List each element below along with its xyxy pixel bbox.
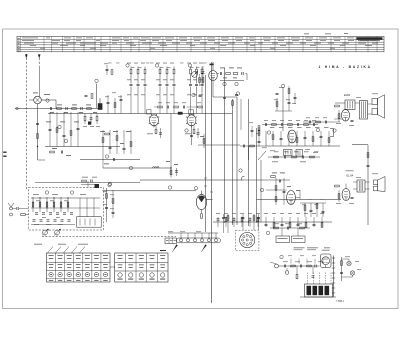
wire bus vertical 3 [236,97,238,225]
wire bus vertical 4 [248,99,250,226]
wire osc right [217,73,219,75]
tap tick [332,277,335,279]
label smudges output 1 [356,96,361,99]
resistor R65 [367,153,369,158]
resistor R58 [258,126,260,131]
resistor R64 [316,204,318,209]
resistor R1 [57,108,62,110]
jack hook symbol [241,176,244,180]
wire I verticals [275,178,277,205]
switch position indicator 2-3 [139,273,143,277]
antenna symbol [8,203,14,207]
capacitor C2 [65,107,67,110]
terminal strip [177,238,221,243]
switch position indicator 2-2 [128,273,132,277]
row L stubs [217,217,219,227]
capacitor C60 [283,190,286,192]
switch label 2-4 [149,278,154,281]
designator node 5 [188,64,191,67]
output transformer T1 [360,101,368,120]
capacitor C63 [310,209,313,211]
designator node 27 [108,182,111,185]
socket pin [241,239,243,241]
detector extra row [262,124,318,126]
capacitor C91 [90,180,92,183]
variable capacitor CV2 [55,230,60,235]
capacitor C81 [233,218,236,220]
capacitor C84 [281,223,284,225]
coil L5 bumps [153,166,160,168]
wire X links [342,258,350,260]
tuning coil L12 [46,197,48,212]
resistor R54 [274,156,279,158]
resistor R35 [102,138,104,143]
tap tick [332,292,335,294]
datum arrow [25,55,27,59]
tube V6 AF amp [287,191,296,205]
label V3 [147,133,153,136]
padder capacitor CP1 [33,219,36,221]
wire G vertical [170,114,172,178]
revision marks above table [304,33,309,36]
resistor R98 [227,216,229,221]
transformer winding 1 [307,286,312,295]
loudspeaker LS1 [372,99,378,105]
wire drop [137,92,139,114]
capacitor C53 [283,156,285,159]
designator node 4 [155,64,158,67]
resistor R100 [274,227,279,229]
tuning coil L10 [32,197,34,212]
switch label 1 [49,279,53,282]
capacitor C48 [288,101,291,103]
capacitor C115 [340,271,343,273]
switch contact symbol b1 [49,263,54,266]
capacitor C30 [49,128,52,130]
capacitor C80 [217,218,220,220]
switch label 5 [85,279,89,282]
capacitor C90 [16,207,18,210]
capacitor C49 [276,92,279,94]
capacitor C40 [175,170,178,172]
label smudges osc [220,67,225,70]
wire bus vertical AGC [205,75,207,232]
wire strip header [168,232,218,234]
capacitor C35 [109,146,112,148]
wire bus vertical B+ [211,62,213,303]
wire X vertical [341,257,343,281]
resistor R53 [328,138,330,143]
resistor R59 [232,101,234,106]
terminal 1 [179,239,182,242]
designator node 1 [46,99,49,102]
capacitor C110 [283,265,285,268]
resistor R49 [288,89,290,94]
label rectifier [322,249,330,252]
switch position indicator 2 [58,272,62,276]
resistor R115 [341,261,343,266]
terminal 4 [200,239,203,242]
tap tick [332,267,335,269]
wire T verticals [223,214,225,233]
plate load parts [158,106,163,108]
bracket symbol [330,129,334,137]
wire drop [173,92,175,114]
designator node 18 [45,191,48,194]
resistor R11 [137,69,139,74]
svg-text:EL 84: EL 84 [347,173,354,177]
capacitor C1 [49,107,51,110]
label smudges strip [168,231,173,234]
label smudges I [272,172,277,175]
node dots row L [224,221,225,222]
label smudges IF rows [127,62,131,65]
resistor R5 [37,134,39,139]
capacitor C86 [313,223,316,225]
screen decoupling block [178,112,183,115]
resistor R97 [112,199,114,204]
switch position indicator 2-1 [118,273,122,277]
tube V4 IF amp 2 [187,115,196,126]
terminal 6 [214,239,217,242]
socket center [246,239,248,241]
capacitor C93 [112,211,115,213]
switch contact symbol d4 [150,264,155,267]
wire osc [96,84,98,101]
switch contact symbol c2 [128,254,133,257]
resistor R22 [199,78,201,83]
designator node 7 [235,82,238,85]
wire osc tail [212,81,214,98]
capacitor C82 [249,218,252,220]
switch contact symbol c3 [139,254,144,257]
switch position indicator 2-4 [150,273,154,277]
headphone jack J1 [347,261,351,265]
wire I links [266,189,287,191]
switch contact symbol c1 [117,254,122,257]
designator node 25 [129,166,132,169]
switch label 2-3 [139,278,144,281]
designator node 3 [126,64,129,67]
leader lines S1 [47,247,53,254]
transformer winding 4 [325,286,330,295]
switch label 2-1 [117,278,122,281]
valve socket view [240,232,255,247]
mechanical link verticals [44,235,46,237]
wire detector feed [282,88,284,131]
bus ticks [204,177,207,179]
designator node 13 [316,128,319,131]
row L labels [216,212,220,215]
resistor R61 [275,197,277,202]
svg-text:EL84: EL84 [344,93,351,97]
capacitor C5 [36,122,39,124]
wire between grids [110,266,115,268]
capacitor C27 [120,98,123,100]
resistor R83 [273,223,275,228]
resistor R16 [159,69,161,74]
capacitor C41 [190,134,193,136]
wire horizontal mixer row [15,108,100,110]
resistor R22 [190,69,192,74]
switch contact symbol b7 [103,263,108,266]
switch contact symbol b5 [85,263,90,266]
wire right top [352,144,368,146]
grid stopper R75 [335,185,340,187]
wire mixer output [41,99,56,101]
wire F verticals [102,130,104,154]
capacitor C74 [351,196,354,198]
trimmer TR5 [192,72,198,78]
resistor R90 [201,214,203,219]
wire H row2 [268,156,320,158]
switch contact symbol d5 [160,264,165,267]
designator node 28 [192,93,195,96]
wire driver verticals [304,203,306,217]
capacitor C113 [312,275,315,277]
capacitor C27 [201,83,204,85]
resistor R57 [250,145,255,147]
capacitor C4 [85,94,88,96]
label smudges P [103,191,107,194]
designator node 24 [281,84,284,87]
resistor R31 [70,131,72,136]
switch label 2-2 [128,278,133,281]
wire bus vertical 6 [260,160,262,222]
socket pin [246,234,248,236]
oscillator padder cluster [84,116,86,121]
wire drop [166,92,168,114]
resistor R74 [338,194,340,199]
switch contact symbol b6 [94,263,99,266]
capacitor C26 [195,83,198,85]
switch position indicator 4 [76,272,80,276]
switch contact symbol d3 [139,264,144,267]
label smudges tuner [33,193,39,196]
capacitor C51 [304,136,307,138]
resistor R42 [203,139,205,144]
switch label 2 [58,279,62,282]
designator node 21 [266,231,269,234]
tap tick [332,272,335,274]
tube V2 oscillator [209,71,218,81]
cathode resistor R44 [155,129,157,134]
label smudges output 2 [346,170,354,173]
wire mixer tail [37,104,39,160]
terminal 3 [193,239,196,242]
capacitor C21 [173,83,176,85]
resistor R52 [312,137,314,142]
tap tick [332,257,335,259]
wire to tuning indicator [103,190,197,192]
terminal arrow 2 [203,245,207,250]
mechanical coupling dashed line [42,236,176,238]
wire antenna [13,208,17,210]
switch contact symbol a3 [67,254,72,257]
coupling parts block A [303,121,340,123]
wire tuner internal mid [31,207,100,209]
trimmer capacitor CT2 [42,212,45,214]
cathode capacitor C44 [159,132,162,134]
datum arrow 2 [38,55,40,59]
switch contact symbol c5 [160,254,165,257]
resistor R81 [241,217,243,222]
capacitor C13 [130,83,133,85]
wire bus vertical 2 [232,99,234,225]
wire center drop [248,146,250,160]
resistor R112 [296,274,298,279]
wire H verticals [272,131,274,146]
label V4 [185,133,191,136]
wire horizontal mid-left 2 [80,159,140,161]
switch position indicator 6 [94,272,98,276]
capacitor C49b [294,96,297,98]
resistor R18 [173,69,175,74]
capacitor C92 [105,206,108,208]
capacitor C55 [242,145,244,148]
wire IF2 tail [191,127,193,145]
wire V drops [296,266,298,274]
capacitor C28 [106,68,109,70]
designator node 17 [194,187,197,190]
capacitor C26 [107,101,110,103]
capacitor C3 [80,107,82,110]
transformer winding 3 [319,286,324,295]
wire tuner internal top [31,197,100,199]
svg-text:1 HIMA - BAZIKA: 1 HIMA - BAZIKA [319,65,372,69]
padder capacitor CP6 [68,219,71,221]
switch label 3 [67,279,71,282]
rectifier tube V9 [322,257,330,265]
resistor R20 [226,73,231,75]
socket pin [249,242,251,244]
wire output B feed [257,198,342,200]
connector box [165,238,177,244]
capacitor C32 [77,127,80,129]
resistor R32 [50,151,55,153]
cathode capacitor C45 [197,132,200,134]
terminal V2 [285,271,289,275]
tuning coil L15 [67,197,69,212]
tone row upper ticks [290,259,292,264]
switch label 7 [103,279,107,282]
wire mixer input [29,99,34,101]
capacitor C61 [278,180,280,183]
wire tube2 to transformer [345,184,347,189]
mixer stage V1 [34,96,42,104]
wire right vertical [367,145,369,225]
detector left parts [258,131,260,136]
capacitor C14 [137,83,140,85]
mains transformer T3 [305,284,333,297]
tuning coil L11 [39,197,41,212]
resistor R82 [257,217,259,222]
wire drop [201,92,203,114]
resistor R99 [253,216,255,221]
switch label 4 [76,279,80,282]
wire detector horizontal [266,145,340,147]
terminal 5 [207,239,210,242]
output tube V8 EL84 [342,109,350,121]
wire E verticals [49,112,51,147]
leader label S1 [34,243,42,246]
capacitor C33 [60,151,62,154]
resistor R37 [130,142,132,147]
socket pin [246,244,248,246]
tuner unit dashed enclosure [29,188,104,231]
transformer leads dashed [307,273,309,285]
designator node 22 [280,255,283,258]
capacitor C95 [242,216,245,218]
resistor R62 [271,176,276,178]
designator node 2 [95,79,98,82]
wire tuner internal verticals right [79,198,81,217]
resistor R110 [291,265,296,267]
tap tick [332,282,335,284]
tap tick [332,262,335,264]
designator node 19 [70,191,73,194]
terminal arrow 1 [174,245,178,250]
rectifier enclosure [321,254,332,268]
designator node 15 [239,169,242,172]
wire P vertical [106,188,108,222]
switch contact symbol a7 [103,254,108,257]
capacitor C56 [251,129,254,131]
switch contact symbol a5 [85,254,90,257]
wire det pair [240,99,242,130]
switch position indicator 2-5 [160,273,164,277]
socket pin [243,236,245,238]
wire right mid segment [198,144,240,146]
wire V chain [279,265,320,267]
designator node 10 [105,155,108,158]
aerial terminal [10,207,13,210]
tube V5 detector [288,130,296,143]
capacitor C31 [63,134,66,136]
wire T2 leads [353,181,357,183]
voltage tap bar [333,256,335,298]
switch table S1 [47,253,111,282]
capacitor C52 [320,135,323,137]
tuning indicator tube EM80 [196,194,206,209]
resistor R96 [106,194,108,199]
designator node 12 [267,131,270,134]
wire output A feed [335,102,345,104]
capacitor C54 [301,156,303,159]
resistor R63 [304,206,306,211]
label smudges Q [82,176,88,179]
capacitor C15 [144,83,147,85]
capacitor C64 [322,210,325,212]
resistor R56 [310,156,315,158]
label smudges H [270,126,275,129]
resistor R23 [196,69,198,74]
capacitor C58 [235,93,238,95]
tap tick [332,287,335,289]
socket pin [249,236,251,238]
label smudges front end [44,93,50,96]
padder capacitor CP3 [47,219,50,221]
switch label 6 [94,279,98,282]
trimmer capacitor CT1 [35,212,38,214]
resistor R51 [296,138,298,143]
capacitor C65 [367,164,370,166]
label smudges E [46,121,51,124]
switch label 2-5 [160,278,165,281]
wire drop [144,92,146,114]
wire transformer bottom [300,296,336,298]
label smudges F [100,130,105,133]
